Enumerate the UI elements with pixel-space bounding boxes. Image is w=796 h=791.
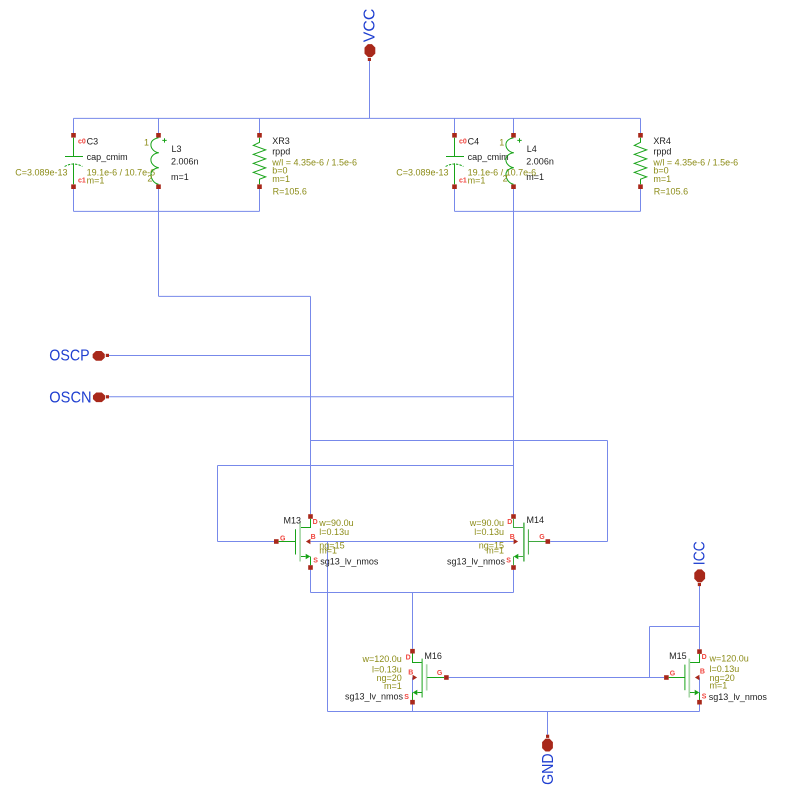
wire tail node to M16 drain: [412, 593, 414, 649]
inductor L4: [499, 133, 554, 189]
wire GND drop: [547, 712, 549, 735]
svg-text:G: G: [670, 670, 676, 677]
wire M16 gate to M15 gate: [449, 677, 664, 679]
svg-text:L4: L4: [527, 144, 537, 154]
M16 source pin square: [410, 700, 415, 705]
XR4 bottom pin square: [638, 184, 643, 189]
wire C4 bottom stub: [454, 189, 456, 212]
ICC port octagon: [694, 569, 705, 582]
M13 drain pin square: [308, 514, 313, 519]
wire XR3 top stub: [259, 118, 261, 133]
M16 gate bar: [426, 664, 428, 690]
M13 bulk arrow: [306, 539, 311, 544]
svg-text:m=1: m=1: [384, 681, 402, 691]
M13 channel bar: [299, 523, 301, 562]
svg-text:sg13_lv_nmos: sg13_lv_nmos: [709, 692, 768, 702]
M15 gate lead: [669, 677, 685, 679]
svg-text:1: 1: [144, 138, 149, 148]
wire common source rail: [311, 592, 514, 594]
wire ICC stem to M15 drain: [699, 586, 701, 649]
svg-text:C3: C3: [87, 137, 99, 147]
M14 gate pin square: [546, 539, 551, 544]
wire right tank bottom rail: [455, 210, 641, 212]
wire OSCN to M13 gate horizontal: [218, 465, 514, 467]
svg-text:l=0.13u: l=0.13u: [474, 527, 504, 537]
M15 bulk arrow: [695, 675, 700, 680]
XR4 top pin square: [638, 133, 643, 138]
svg-text:M16: M16: [424, 651, 442, 661]
VCC port stub square: [368, 58, 371, 61]
svg-text:S: S: [702, 693, 707, 700]
L4 coil: [506, 138, 514, 184]
svg-text:L3: L3: [172, 144, 182, 154]
svg-text:m=1: m=1: [653, 174, 671, 184]
wire VCC stem: [369, 61, 371, 118]
XR4 zigzag body: [634, 138, 646, 184]
resistor XR4: [634, 133, 738, 197]
wire bulk M13 to M14: [311, 541, 514, 543]
M14 bulk arrow: [514, 539, 519, 544]
L4 polarity plus: [517, 138, 521, 142]
svg-text:c0: c0: [78, 139, 86, 146]
M15 gate pin square: [664, 675, 669, 680]
M14 source lead drop: [513, 557, 515, 566]
wire C4 top stub: [454, 118, 456, 133]
svg-text:1: 1: [499, 138, 504, 148]
svg-text:w=120.0u: w=120.0u: [362, 654, 402, 664]
wire M15 diode connection horizontal: [650, 626, 700, 628]
wire M13 gate lead: [218, 541, 275, 543]
svg-text:B: B: [510, 534, 515, 541]
wire M13 gate feed vertical: [217, 466, 219, 542]
svg-text:m=1: m=1: [526, 172, 544, 182]
wire L3 top stub: [158, 118, 160, 133]
svg-text:D: D: [313, 519, 318, 526]
svg-text:VCC: VCC: [361, 9, 378, 43]
wire XR4 top stub: [640, 118, 642, 133]
transistor M14: [447, 514, 550, 570]
M14 gate lead: [528, 541, 545, 543]
svg-text:rppd: rppd: [653, 147, 671, 157]
port GND: [540, 735, 557, 785]
svg-text:2: 2: [147, 174, 152, 184]
svg-text:G: G: [280, 535, 286, 542]
M16 channel bar: [421, 659, 423, 698]
capacitor C4: [396, 133, 536, 189]
M15 gate bar: [684, 665, 686, 691]
M16 drain lead: [413, 654, 422, 663]
VCC port octagon: [365, 44, 376, 57]
wire L4 top stub: [513, 118, 515, 133]
svg-text:S: S: [404, 694, 409, 701]
C4 pin c1 square: [452, 184, 457, 189]
wire M14 gate feed vertical: [607, 441, 609, 542]
M13 drain lead: [301, 519, 311, 528]
svg-text:w=120.0u: w=120.0u: [709, 654, 749, 664]
svg-text:2: 2: [503, 174, 508, 184]
M15 drain pin square: [697, 649, 702, 654]
svg-text:m=1: m=1: [468, 176, 486, 186]
M13 source arrow: [306, 554, 311, 559]
svg-text:R=105.6: R=105.6: [654, 187, 688, 197]
wire XR4 bottom stub: [640, 189, 642, 212]
svg-text:G: G: [539, 534, 545, 541]
GND port octagon: [542, 739, 553, 752]
svg-text:cap_cmim: cap_cmim: [87, 152, 128, 162]
XR3 zigzag body: [253, 138, 265, 184]
svg-text:m=1: m=1: [87, 176, 105, 186]
M15 drain lead: [690, 654, 700, 663]
svg-text:D: D: [406, 654, 411, 661]
svg-text:c0: c0: [459, 139, 467, 146]
svg-text:m=1: m=1: [486, 546, 504, 556]
svg-text:ICC: ICC: [692, 541, 709, 565]
svg-text:D: D: [507, 519, 512, 526]
XR3 bottom pin square: [257, 184, 262, 189]
svg-text:B: B: [311, 534, 316, 541]
M14 drain lead: [514, 519, 524, 528]
wire M13 source stub: [310, 570, 312, 593]
XR3 top pin square: [257, 133, 262, 138]
svg-text:2.006n: 2.006n: [171, 156, 199, 166]
M16 bulk arrow: [413, 675, 418, 680]
wire OSCN port lead: [109, 396, 514, 398]
M15 source pin square: [697, 700, 702, 705]
svg-text:m=1: m=1: [272, 174, 290, 184]
C4 curved plate: [446, 164, 464, 167]
L4 pin 2 square: [511, 184, 516, 189]
svg-text:m=1: m=1: [319, 546, 337, 556]
M15 source arrow: [695, 690, 700, 695]
OSCN port octagon: [93, 392, 105, 402]
svg-text:l=0.13u: l=0.13u: [319, 527, 349, 537]
wire left tank bottom rail: [74, 210, 260, 212]
wire OSCP node vertical to M13 drain: [310, 296, 312, 514]
M14 gate bar: [527, 529, 529, 554]
svg-text:GND: GND: [540, 753, 557, 785]
svg-text:R=105.6: R=105.6: [273, 187, 307, 197]
transistor M15: [664, 649, 767, 704]
M16 source lead drop: [412, 693, 414, 700]
svg-text:OSCP: OSCP: [49, 348, 89, 365]
M13 source lead drop: [310, 557, 312, 566]
wire OSCP elbow horizontal: [159, 295, 311, 297]
svg-text:sg13_lv_nmos: sg13_lv_nmos: [345, 692, 404, 702]
svg-text:D: D: [702, 654, 707, 661]
M14 drain pin square: [511, 514, 516, 519]
C3 pin c1 square: [71, 184, 76, 189]
svg-text:cap_cmim: cap_cmim: [468, 152, 509, 162]
svg-text:rppd: rppd: [272, 147, 290, 157]
M16 gate pin square: [444, 675, 449, 680]
port OSCN: [49, 389, 109, 406]
wire OSCN node L4 bottom to M14 drain: [513, 189, 515, 515]
port OSCP: [49, 348, 109, 365]
M14 source pin square: [511, 565, 516, 570]
resistor XR3: [253, 133, 357, 197]
wire C3 top stub: [73, 118, 75, 133]
M16 drain pin square: [410, 649, 415, 654]
svg-text:C=3.089e-13: C=3.089e-13: [396, 168, 448, 178]
L3 pin 2 square: [156, 184, 161, 189]
svg-text:S: S: [506, 557, 511, 564]
svg-text:OSCN: OSCN: [49, 389, 91, 406]
wire ground rail: [328, 711, 700, 713]
svg-text:B: B: [700, 669, 705, 676]
M16 gate lead: [427, 677, 444, 679]
wire M14 source stub: [513, 570, 515, 593]
OSCN port stub square: [106, 395, 109, 398]
L3 coil: [151, 138, 159, 184]
C3 plates: [65, 138, 83, 184]
wire M16 bulk-source to ground rail: [412, 678, 414, 712]
transistor M13: [274, 514, 379, 570]
inductor L3: [144, 133, 199, 189]
M15 source lead drop: [699, 693, 701, 700]
svg-text:C4: C4: [468, 137, 480, 147]
wire OSCP port lead: [109, 355, 311, 357]
ICC port stub square: [698, 583, 701, 586]
L4 pin 1 square: [511, 133, 516, 138]
port VCC: [361, 9, 378, 61]
svg-text:B: B: [408, 670, 413, 677]
OSCP port stub square: [106, 354, 109, 357]
L3 pin 1 square: [156, 133, 161, 138]
svg-text:M14: M14: [527, 515, 545, 525]
M16 source lead: [417, 692, 422, 694]
M13 source lead: [301, 556, 306, 558]
OSCP port octagon: [93, 351, 105, 361]
M15 source lead: [690, 692, 695, 694]
wire top VCC rail: [74, 117, 641, 119]
wire C3 bottom stub: [73, 189, 75, 212]
svg-text:m=1: m=1: [171, 172, 189, 182]
wire M15 gate feed vertical: [649, 627, 651, 678]
svg-text:G: G: [437, 670, 443, 677]
port ICC: [692, 541, 709, 586]
M14 source arrow: [514, 554, 519, 559]
wire M15 bulk-source to ground rail: [699, 678, 701, 712]
M14 source lead: [518, 556, 523, 558]
wire XR3 bottom stub: [259, 189, 261, 212]
svg-text:2.006n: 2.006n: [526, 156, 554, 166]
M16 source arrow: [413, 690, 418, 695]
C3 pin c0 square: [71, 133, 76, 138]
M13 gate pin square: [274, 539, 279, 544]
wire OSCP to M14 gate horizontal: [311, 440, 608, 442]
svg-text:C=3.089e-13: C=3.089e-13: [15, 168, 67, 178]
svg-text:m=1: m=1: [710, 680, 728, 690]
svg-text:sg13_lv_nmos: sg13_lv_nmos: [447, 557, 506, 567]
svg-text:M13: M13: [283, 515, 301, 525]
svg-text:M15: M15: [669, 651, 687, 661]
C4 pin c0 square: [452, 133, 457, 138]
M15 channel bar: [688, 659, 690, 698]
C4 plates: [446, 138, 464, 184]
wire M14 gate lead: [550, 541, 607, 543]
M13 source pin square: [308, 565, 313, 570]
svg-text:c1: c1: [459, 177, 467, 184]
svg-text:c1: c1: [78, 177, 86, 184]
wire L3 bottom to OSCP elbow: [158, 189, 160, 297]
svg-text:XR3: XR3: [272, 136, 290, 146]
L3 polarity plus: [162, 138, 166, 142]
wire bulk drop to ground rail: [327, 542, 329, 712]
svg-text:XR4: XR4: [653, 136, 671, 146]
svg-text:sg13_lv_nmos: sg13_lv_nmos: [320, 557, 379, 567]
transistor M16: [345, 649, 449, 705]
GND port stub square: [546, 735, 549, 738]
M13 gate lead: [279, 541, 296, 543]
M13 gate bar: [295, 529, 297, 554]
svg-text:S: S: [313, 557, 318, 564]
capacitor C3: [15, 133, 155, 189]
M14 channel bar: [523, 523, 525, 562]
C3 curved plate: [65, 164, 83, 167]
